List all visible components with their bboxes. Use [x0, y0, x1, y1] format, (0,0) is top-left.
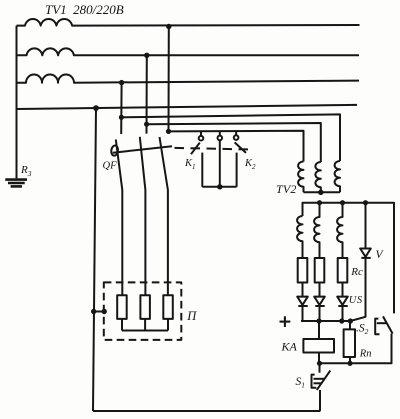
- svg-text:Rc: Rc: [350, 266, 363, 278]
- svg-text:K1: K1: [184, 158, 196, 171]
- svg-text:TV2: TV2: [276, 182, 297, 196]
- svg-text:QF: QF: [103, 161, 118, 172]
- svg-text:K2: K2: [244, 158, 256, 171]
- svg-text:S1: S1: [296, 376, 306, 390]
- svg-text:П: П: [186, 309, 197, 323]
- svg-text:.S2: .S2: [356, 322, 369, 336]
- svg-text:TV1 280/220B: TV1 280/220B: [45, 2, 124, 17]
- svg-text:R3: R3: [20, 164, 32, 178]
- svg-text:Rn: Rn: [359, 349, 372, 360]
- svg-text:US: US: [349, 295, 363, 306]
- svg-text:KA: KA: [281, 339, 298, 353]
- svg-text:V: V: [376, 249, 385, 261]
